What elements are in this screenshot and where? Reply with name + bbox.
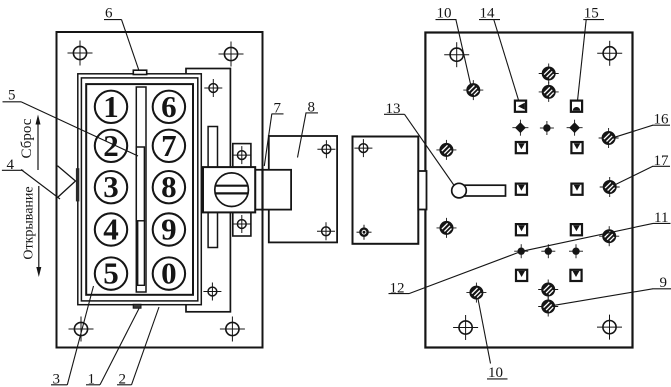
svg-text:10: 10 [437,6,452,22]
square hole 15 [571,101,582,112]
back plate corner screw bottom-left [453,315,478,340]
corner screw hole top-left [68,41,93,66]
small screw lower [203,283,221,301]
pointer triangle [58,166,76,198]
cylinder slot upper line [215,185,248,187]
button 7 [153,130,185,162]
svg-text:17: 17 [654,153,670,169]
svg-text:14: 14 [480,6,496,22]
callout 2 [117,384,132,386]
hatched hole pair bottom upper [538,280,558,300]
svg-text:Сброс: Сброс [19,118,35,158]
svg-text:2: 2 [103,128,119,163]
hatched hole 9 [538,297,558,317]
callout 4 [2,169,23,171]
square hole row3 right [571,184,582,195]
button 9 [153,213,185,245]
screw on plate 8 lower [317,222,335,240]
svg-text:9: 9 [161,212,177,247]
svg-text:Открывание: Открывание [22,186,37,259]
diamond pin left [512,120,528,136]
callout 9 [653,288,671,290]
button 6 [153,91,185,123]
svg-text:7: 7 [161,128,177,163]
back plate corner screw top-right [597,41,622,66]
callout 8 [306,112,319,114]
down arrow [38,186,40,269]
latch bolt [255,170,291,210]
button 8 [153,171,185,203]
keypad bezel middle frame [81,78,197,301]
back plate corner screw bottom-right [597,315,622,340]
screw on side plate upper [354,139,372,157]
hatched hole left lower [437,218,457,238]
central slot [136,87,146,292]
square hole row3 left [516,184,527,195]
callout 17 [653,165,671,167]
corner screw hole bottom-right [220,317,245,342]
slot 13 [460,185,506,196]
svg-text:15: 15 [584,6,599,22]
hatched hole 17 [600,177,620,197]
pin dot right [569,244,583,258]
callout 3 [51,384,67,386]
hatched hole pair top upper [539,64,559,84]
svg-text:0: 0 [161,256,177,291]
latch top tab [233,144,251,168]
button 2 [95,130,127,162]
svg-text:8: 8 [308,100,316,116]
svg-text:2: 2 [119,371,127,387]
slide bar upper [136,147,144,221]
svg-text:9: 9 [660,275,668,291]
bridge tab [418,171,426,210]
hatched hole 16 [599,128,619,148]
screw on side plate lower [357,225,372,240]
svg-text:3: 3 [53,371,61,387]
callout 15 [583,19,604,21]
callout 10 bottom [487,378,508,380]
back plate corner screw top-left [444,42,469,67]
svg-text:3: 3 [103,169,119,204]
vertical slat [208,127,217,248]
svg-text:1: 1 [88,371,96,387]
latch bottom tab [233,212,251,237]
hatched hole pair top lower [539,82,559,102]
screw on latch top tab [233,146,251,164]
pin dot middle [541,244,555,258]
square hole row5 right [570,270,581,281]
square hole row2 right [571,142,582,153]
right back plate [425,33,632,348]
bottom tab 1 [133,304,141,308]
square hole row5 left [516,270,527,281]
pin dot left 12 [514,244,528,258]
button 5 [95,257,127,289]
keypad bezel inner frame [86,84,193,295]
latch body [203,167,255,212]
button 3 [95,171,127,203]
hatched hole 11 [599,226,619,246]
left mounting plate (front view) [57,32,263,348]
top tab 6 [133,70,146,74]
square hole row2 left [516,142,527,153]
callout 12 leader through pins to 11 [389,293,410,295]
corner screw hole top-right [219,42,244,67]
hatched hole 10 top [463,80,483,100]
corner screw hole bottom-left [69,317,94,342]
hatched hole left upper [436,140,456,160]
small pin middle [540,121,554,135]
callout 16 [653,124,671,126]
callout 7 [272,113,284,115]
svg-text:8: 8 [161,169,177,204]
svg-text:7: 7 [274,101,282,117]
cylinder slot lower line [215,192,248,194]
pointer strip 4 [76,168,79,201]
svg-text:6: 6 [161,89,177,124]
screw on plate 8 upper [317,140,335,158]
callout 14 [479,19,500,21]
small screw upper [204,79,222,97]
button 4 [95,213,127,245]
svg-text:10: 10 [488,365,503,381]
square hole 14 [515,101,526,112]
strike plate 8 [269,136,337,242]
svg-text:16: 16 [654,112,670,128]
square hole row4 left [516,224,527,235]
button 0 [153,257,185,289]
svg-text:11: 11 [654,210,668,226]
callout 13 [384,113,405,115]
svg-text:4: 4 [103,212,119,247]
square hole row4 right [571,224,582,235]
svg-text:13: 13 [386,101,401,117]
button 1 [95,91,127,123]
slide bar lower [138,221,145,285]
screw on latch bottom tab [233,215,251,233]
hatched hole 10 bottom [466,283,486,303]
callout 5 [3,101,22,103]
svg-text:12: 12 [390,281,405,297]
svg-text:4: 4 [7,157,15,173]
left plate right edge over bolt [261,169,263,211]
callout 10 top [436,19,457,21]
small side plate [353,137,419,244]
slot 13 circle [452,183,467,198]
inner sub-panel [186,69,230,312]
svg-text:1: 1 [103,89,119,124]
callout 1 [86,384,100,386]
callout 11 [653,222,671,224]
keypad bezel outer frame [78,74,202,305]
diamond pin right [567,120,583,136]
svg-text:5: 5 [103,256,119,291]
svg-text:5: 5 [8,88,16,104]
svg-text:6: 6 [105,6,113,22]
latch cylinder [215,173,249,207]
up arrow [37,122,39,170]
callout 6 [104,19,122,21]
